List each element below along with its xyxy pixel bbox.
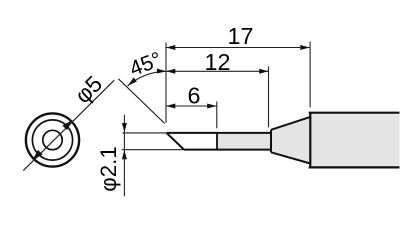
svg-text:6: 6 xyxy=(188,83,201,109)
svg-text:φ5: φ5 xyxy=(69,70,107,108)
end view inner circle xyxy=(43,130,62,149)
arrow 12 left xyxy=(166,69,175,74)
phi5 arrowhead upper-right xyxy=(62,120,72,130)
barrel bottom outline xyxy=(309,166,400,168)
barrel left edge xyxy=(309,113,311,168)
extension line at barrel start xyxy=(309,42,311,108)
shaft body gray fill xyxy=(217,133,271,150)
phi2.1 dimension line xyxy=(123,115,125,197)
phi2.1 top extension line xyxy=(123,132,167,134)
arc arrowhead lower-left xyxy=(128,78,137,86)
bevel face (white) of tip xyxy=(167,133,218,150)
barrel top outline xyxy=(309,112,400,114)
arrow 6 left xyxy=(166,104,175,109)
dimension line 12 xyxy=(166,70,269,72)
svg-text:17: 17 xyxy=(228,23,254,49)
dimension line 17 xyxy=(166,47,310,49)
svg-text:φ2.1: φ2.1 xyxy=(96,146,121,191)
arrow 17 left xyxy=(166,45,175,50)
bevel end vertical line xyxy=(216,133,218,150)
45 degree extension diagonal xyxy=(118,79,164,124)
end view middle circle xyxy=(32,120,72,160)
extension line at cone start xyxy=(268,67,270,128)
barrel gray fill xyxy=(310,113,399,168)
left common extension line xyxy=(165,43,167,123)
phi2.1 arrow up xyxy=(122,150,127,159)
svg-text:12: 12 xyxy=(205,49,231,75)
end view outer circle xyxy=(26,113,79,166)
cone top outline xyxy=(271,117,310,130)
extension line at bevel end xyxy=(216,102,218,129)
tip top outline xyxy=(167,132,272,134)
arrow 17 right xyxy=(300,45,309,50)
dimension line 6 xyxy=(166,105,217,107)
arrow 6 right xyxy=(207,104,216,109)
arrow 12 right xyxy=(259,69,268,74)
cone junction vertical line xyxy=(270,130,272,153)
bevel edge xyxy=(167,133,185,150)
svg-text:45°: 45° xyxy=(126,47,165,81)
phi2.1 bottom extension line xyxy=(122,149,184,151)
45 degree arc xyxy=(128,71,166,86)
phi2.1 arrow down xyxy=(122,123,127,132)
phi5 arrowhead lower-left xyxy=(33,150,43,160)
arc arrowhead right xyxy=(157,69,166,74)
phi5 dimension line through circle xyxy=(23,80,114,170)
cone gray fill xyxy=(271,117,310,164)
cone bottom outline xyxy=(271,152,310,163)
tip bottom outline xyxy=(184,149,271,151)
